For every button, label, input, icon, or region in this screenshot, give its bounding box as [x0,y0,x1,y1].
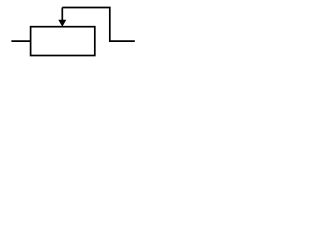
wiper arrow [58,8,66,27]
wire wiper top and right lead [62,8,135,42]
wire left lead [11,40,30,42]
potentiometer body [31,27,95,56]
